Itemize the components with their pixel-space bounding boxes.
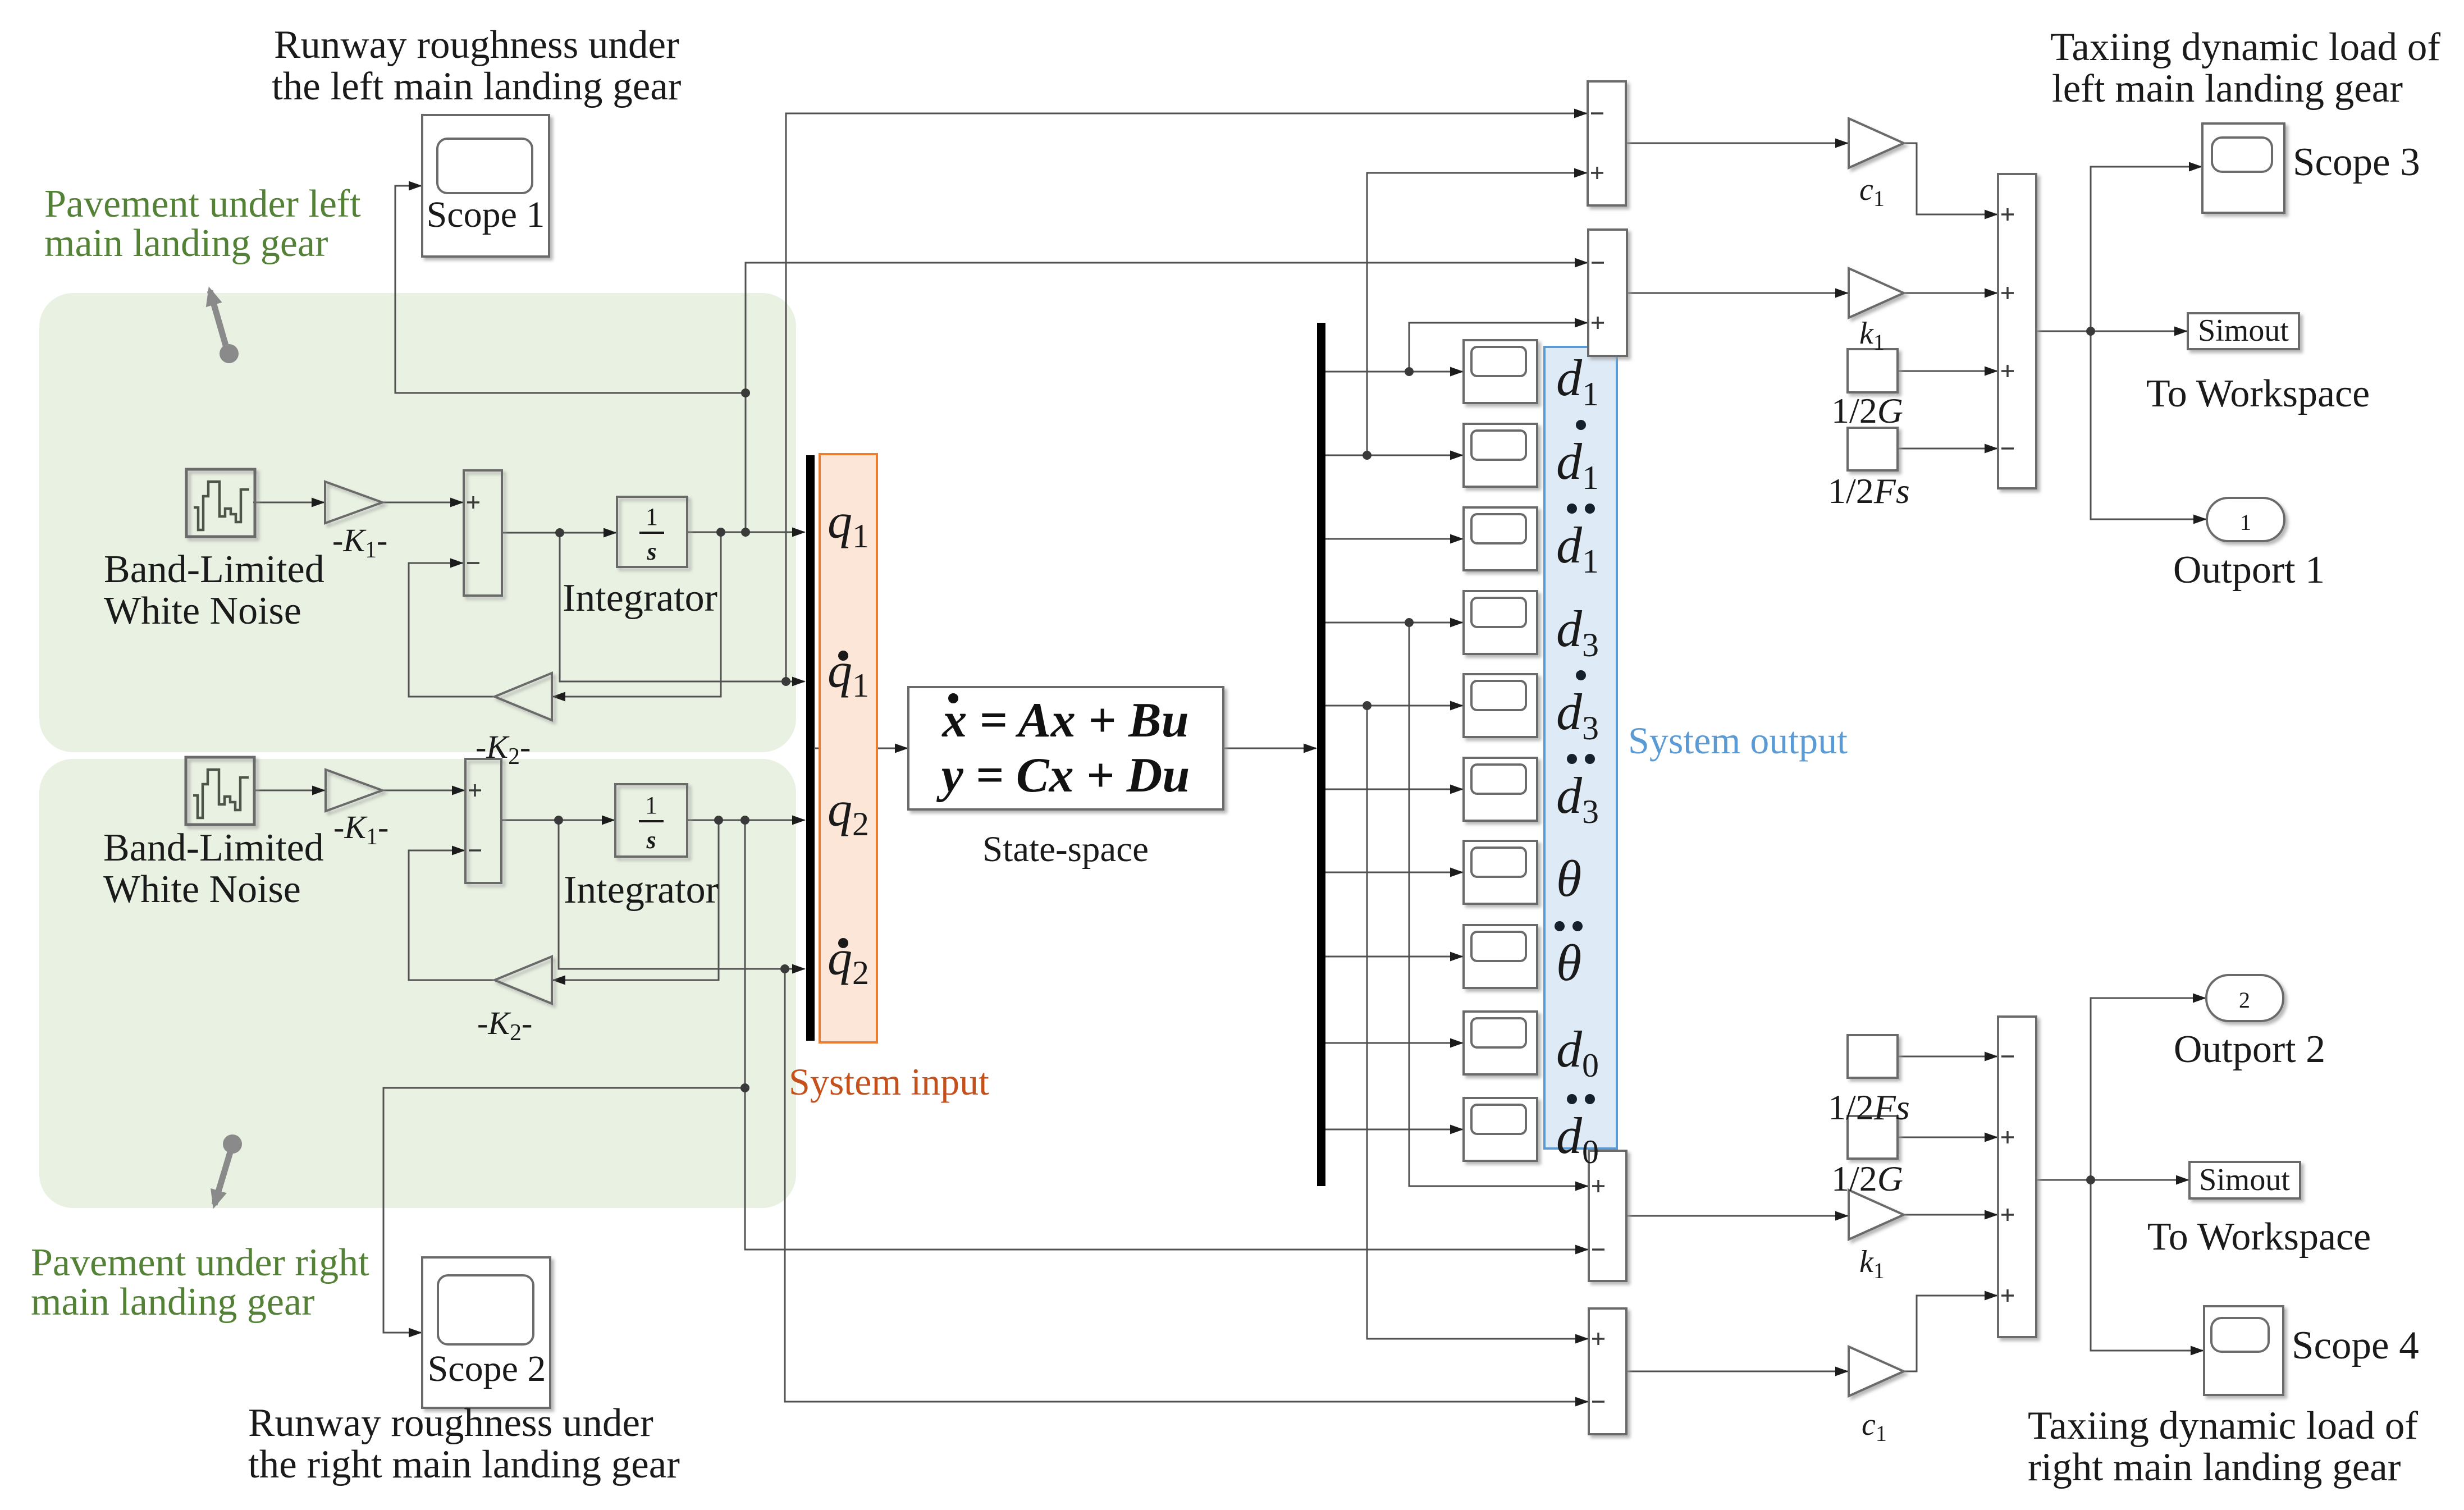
svg-text:Band-Limited: Band-Limited (104, 548, 324, 591)
svg-text:To Workspace: To Workspace (2147, 1215, 2371, 1259)
svg-text:-K1-: -K1- (332, 522, 387, 563)
svg-text:Integrator: Integrator (563, 576, 717, 620)
svg-text:Scope 4: Scope 4 (2292, 1324, 2419, 1367)
svg-text:Simout: Simout (2199, 1163, 2290, 1197)
svg-text:Taxiing dynamic load of: Taxiing dynamic load of (2028, 1404, 2418, 1448)
svg-text:Outport 2: Outport 2 (2174, 1028, 2325, 1071)
svg-text:s: s (646, 538, 656, 565)
svg-text:-K2-: -K2- (476, 729, 531, 770)
svg-text:Runway roughness under: Runway roughness under (248, 1401, 653, 1445)
svg-text:Band-Limited: Band-Limited (103, 826, 324, 870)
svg-text:White Noise: White Noise (103, 868, 301, 911)
svg-text:1/2G: 1/2G (1831, 1159, 1903, 1198)
svg-text:1: 1 (645, 791, 657, 819)
svg-text:the left main landing gear: the left main landing gear (272, 65, 682, 108)
svg-text:Scope 3: Scope 3 (2293, 140, 2420, 184)
svg-text:White Noise: White Noise (104, 589, 301, 633)
svg-text:Simout: Simout (2198, 313, 2289, 348)
svg-text:To Workspace: To Workspace (2146, 372, 2370, 415)
svg-text:1: 1 (646, 503, 658, 530)
svg-text:main landing gear: main landing gear (44, 222, 328, 265)
svg-text:left main landing gear: left main landing gear (2052, 67, 2403, 111)
svg-text:s: s (646, 826, 656, 854)
svg-text:Runway roughness under: Runway roughness under (274, 23, 679, 67)
svg-text:Scope 1: Scope 1 (427, 194, 545, 235)
svg-text:-K2-: -K2- (477, 1005, 532, 1046)
svg-text:Scope 2: Scope 2 (428, 1348, 546, 1389)
svg-text:State-space: State-space (982, 829, 1149, 870)
svg-text:Taxiing dynamic load of: Taxiing dynamic load of (2050, 25, 2440, 69)
svg-text:1/2Fs: 1/2Fs (1828, 1087, 1910, 1127)
svg-text:System output: System output (1628, 719, 1848, 762)
svg-text:main landing gear: main landing gear (31, 1280, 314, 1324)
svg-text:Outport 1: Outport 1 (2173, 548, 2325, 592)
svg-text:1/2Fs: 1/2Fs (1828, 471, 1910, 511)
svg-text:the right main landing gear: the right main landing gear (248, 1443, 680, 1486)
svg-text:θ: θ (1556, 934, 1581, 991)
svg-text:y = Cx + Du: y = Cx + Du (936, 748, 1190, 803)
svg-text:Pavement under right: Pavement under right (31, 1241, 369, 1284)
svg-text:x = Ax + Bu: x = Ax + Bu (941, 693, 1188, 748)
svg-text:2: 2 (2239, 987, 2250, 1013)
svg-text:System input: System input (789, 1060, 989, 1103)
svg-text:θ: θ (1556, 850, 1581, 907)
svg-text:-K1-: -K1- (333, 809, 388, 850)
svg-text:Pavement under left: Pavement under left (44, 182, 361, 226)
svg-text:1: 1 (2240, 510, 2251, 535)
svg-text:1/2G: 1/2G (1831, 391, 1903, 431)
svg-text:Integrator: Integrator (564, 868, 719, 912)
svg-text:right main landing gear: right main landing gear (2028, 1445, 2401, 1489)
